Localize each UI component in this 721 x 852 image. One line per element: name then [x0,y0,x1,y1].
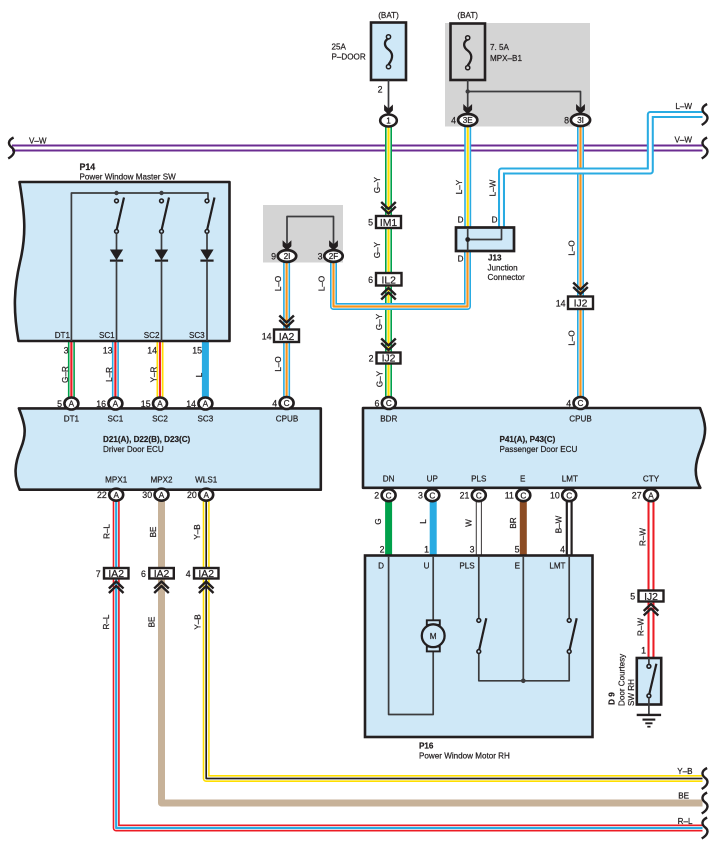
connector 4(C) CPUB passenger [566,397,587,409]
passenger ECU top labels [380,415,591,424]
connector IA2 MPX2 chevron [154,582,169,594]
svg-text:D: D [458,255,464,264]
switch SC1 [115,198,124,250]
connector 2I oval [278,250,296,262]
svg-text:4: 4 [560,545,565,555]
svg-text:D: D [458,216,464,225]
connector 5(A) DT1 [57,398,78,410]
svg-text:SW RH: SW RH [627,679,636,706]
svg-text:Y–B: Y–B [194,614,203,629]
svg-text:SC2: SC2 [144,331,160,340]
connector 15(A) SC2 [141,398,167,410]
svg-text:(BAT): (BAT) [378,11,399,20]
svg-text:2: 2 [374,491,379,501]
svg-text:SC3: SC3 [189,331,205,340]
svg-text:A: A [203,400,209,409]
svg-text:D21(A), D22(B), D23(C): D21(A), D22(B), D23(C) [103,435,191,444]
connector 27(A) CTY [632,489,658,501]
wire V-W horizontal bus [12,145,703,152]
svg-text:A: A [203,491,209,500]
svg-text:A: A [648,491,654,500]
svg-text:4: 4 [272,399,277,409]
switch LMT [567,618,576,653]
wire G DN to motor [385,501,392,556]
svg-text:L–O: L–O [568,330,577,345]
svg-text:W: W [465,519,474,527]
wire U branch to motor [432,556,434,621]
svg-text:A: A [157,400,163,409]
Passenger Door ECU box [363,408,705,488]
connector 4(C) CPUB driver [272,397,293,409]
svg-text:DT1: DT1 [64,415,80,424]
wire PLS/LMT switch commons [479,653,569,681]
driver ECU top labels [64,415,298,424]
svg-text:3: 3 [318,252,323,262]
svg-text:27: 27 [632,491,642,501]
wire DT1 internal vertical [71,193,208,341]
arrow into 2I [283,240,292,250]
svg-text:R–L: R–L [678,817,693,826]
svg-text:L: L [419,519,428,524]
wire L-O J13 to 2F [334,250,468,307]
svg-text:L–Y: L–Y [455,179,464,194]
svg-text:C: C [284,399,290,408]
svg-text:5: 5 [515,545,520,555]
svg-text:L: L [195,372,204,377]
svg-text:1: 1 [386,117,391,126]
svg-text:IA2: IA2 [108,569,124,580]
Driver Door ECU box [16,408,321,489]
P16 Power Window Motor RH box [365,556,593,738]
wire LMT branch [568,556,570,619]
svg-text:IJ2: IJ2 [644,592,658,603]
svg-text:P16: P16 [419,742,434,751]
svg-text:LMT: LMT [549,562,565,571]
svg-text:D 9: D 9 [608,692,617,705]
svg-text:1: 1 [424,545,429,555]
motor pin numbers [380,545,566,555]
svg-text:Y–B: Y–B [677,767,692,776]
svg-text:L–R: L–R [105,367,114,382]
svg-text:G–Y: G–Y [373,241,382,258]
connector 2(C) DN [374,489,395,501]
connector 21(C) PLS [460,489,486,501]
connector IJ2 left chevron [381,339,396,351]
svg-text:C: C [429,491,435,500]
connector 3E oval [458,114,477,126]
label 7.5A MPX-B1 [490,43,522,63]
driver ECU title [103,435,191,454]
svg-text:1: 1 [641,646,646,656]
wire B-W LMT to motor [566,501,573,556]
svg-text:P–DOOR: P–DOOR [332,53,366,62]
break symbol V-W right [702,138,708,159]
wire Y-R pin14 to 15A [157,341,164,398]
svg-text:MPX2: MPX2 [150,476,173,485]
svg-text:C: C [578,399,584,408]
svg-text:3: 3 [64,346,69,356]
connector 10(C) LMT [550,489,576,501]
svg-text:2: 2 [380,545,385,555]
arrow into 3E [463,104,472,114]
diode SC2 [155,250,168,342]
svg-text:A: A [113,400,119,409]
connector IJ2 right chevron [573,283,588,295]
passenger ECU title [500,435,578,454]
svg-text:Driver Door ECU: Driver Door ECU [103,445,164,454]
svg-text:6: 6 [141,569,146,579]
svg-text:SC1: SC1 [99,331,115,340]
connector IJ2 left [377,353,401,365]
svg-text:P14: P14 [80,162,96,172]
svg-text:IA2: IA2 [198,569,214,580]
switch SC2 [160,198,169,250]
switch PLS [477,618,486,653]
svg-text:14: 14 [262,331,272,341]
svg-text:9: 9 [271,252,276,262]
svg-text:V–W: V–W [674,136,692,145]
break Y-B [702,768,708,789]
label J13 Junction Connector [488,254,526,283]
gray block around 2I/2F connectors [263,205,343,263]
svg-text:L–O: L–O [318,276,327,291]
svg-text:SC1: SC1 [108,415,124,424]
svg-text:CPUB: CPUB [569,415,592,424]
svg-text:E: E [515,562,521,571]
svg-text:L–O: L–O [568,240,577,255]
svg-text:Connector: Connector [488,273,526,282]
motor box internal labels [378,562,565,571]
svg-text:25A: 25A [332,43,347,52]
connector 30(A) MPX2 [142,489,168,501]
svg-text:8: 8 [564,116,569,126]
switch SC3 [205,198,214,250]
svg-text:Power Window Motor RH: Power Window Motor RH [419,752,510,761]
wire R-L MPX1 run [116,501,702,829]
svg-text:30: 30 [142,490,152,500]
svg-text:2F: 2F [329,252,339,261]
wire fuse2 junction branch to 3E and 3I [466,80,581,111]
connector IM1 [376,216,401,229]
connector 3I oval [571,114,590,126]
svg-text:3I: 3I [577,116,584,125]
wire W PLS to motor [476,501,482,556]
connector 1 oval [380,115,397,127]
svg-text:DT1: DT1 [55,331,71,340]
svg-text:(BAT): (BAT) [457,11,478,20]
svg-text:MPX–B1: MPX–B1 [490,54,522,63]
svg-text:Y–B: Y–B [193,524,202,539]
svg-text:L–W: L–W [675,102,692,111]
connector IA2 mid chevron [279,316,294,328]
svg-text:3: 3 [470,545,475,555]
svg-text:5: 5 [630,592,635,602]
J13 junction connector [456,228,514,252]
svg-text:Y–R: Y–R [150,366,159,382]
break BE [702,793,708,814]
svg-text:16: 16 [96,399,106,409]
svg-text:13: 13 [103,346,113,356]
wire G-Y fuse1 to BDR [385,126,392,398]
svg-text:PLS: PLS [471,475,487,484]
svg-text:3E: 3E [463,116,474,125]
svg-text:21: 21 [460,491,470,501]
node SC1 tap [114,191,118,195]
svg-text:C: C [386,491,392,500]
svg-text:P41(A), P43(C): P41(A), P43(C) [500,435,556,444]
svg-text:G–Y: G–Y [375,313,384,330]
P16 label [419,742,510,761]
svg-text:5: 5 [57,399,62,409]
wire L-O 2I to CPUB(driver) [283,258,290,398]
diode SC1 [110,250,123,342]
bridge wire 2I-2F [287,217,334,248]
svg-text:11: 11 [505,491,514,501]
connector IM1 chevron [381,202,396,214]
svg-text:U: U [424,562,430,571]
svg-text:15: 15 [192,346,202,356]
wire L-O 3I to CPUB(passenger) [577,126,584,398]
svg-text:22: 22 [97,490,107,500]
connector IJ2 right [568,297,593,310]
svg-text:IM1: IM1 [380,218,398,229]
svg-text:L–O: L–O [274,356,283,371]
svg-text:UP: UP [427,475,438,484]
connector IJ2 CTY chevron [644,604,659,616]
wire E branch [522,556,524,681]
svg-text:D: D [492,216,498,225]
svg-text:IJ2: IJ2 [574,299,588,310]
ground [637,705,661,727]
svg-text:B–W: B–W [555,515,564,533]
svg-text:M: M [430,632,437,641]
svg-text:L–O: L–O [274,276,283,291]
svg-text:V–W: V–W [29,137,47,146]
connector 11(C) E [505,489,531,501]
svg-text:C: C [386,399,392,408]
svg-text:2: 2 [378,85,383,95]
connector IJ2 CTY [630,591,663,603]
wire D branch to motor [389,556,434,715]
svg-text:BE: BE [149,526,158,537]
passenger ECU bottom labels [383,475,660,484]
svg-text:BE: BE [678,792,689,801]
svg-text:C: C [520,491,526,500]
svg-text:2: 2 [369,353,374,363]
svg-text:D: D [378,562,384,571]
svg-text:L–W: L–W [489,179,498,196]
P14 pin numbers [64,346,203,356]
svg-text:DN: DN [383,475,395,484]
svg-text:C: C [566,491,572,500]
diode SC3 [200,250,213,342]
label P14 title [80,162,177,182]
svg-text:IL2: IL2 [381,275,396,286]
wire fuse1 to connector 1 [388,80,390,111]
motor M [422,620,445,651]
svg-text:G–R: G–R [61,366,70,383]
svg-text:20: 20 [187,490,197,500]
svg-text:R–W: R–W [637,618,646,636]
connector IL2 [376,273,402,286]
connector 22(A) MPX1 [97,489,123,501]
connector IA2 MPX2 [141,568,174,580]
label 25A P-DOOR [332,43,366,62]
svg-text:R–L: R–L [102,614,111,629]
wire PLS branch [478,556,480,619]
svg-text:G–Y: G–Y [373,176,382,193]
wire BE MPX2 run [162,501,703,804]
svg-text:J13: J13 [488,254,502,263]
connector IA2 WLS1 [186,568,219,580]
svg-text:10: 10 [550,491,560,501]
svg-text:IA2: IA2 [279,332,295,343]
gray block around 7.5A fuse [445,23,590,127]
svg-text:G: G [374,518,383,524]
wire Y-B WLS1 run [206,501,702,779]
connector 14(A) SC3 [186,398,212,410]
svg-text:BR: BR [509,517,518,528]
driver ECU bottom labels [105,476,218,485]
svg-text:4: 4 [451,116,456,126]
svg-text:E: E [520,475,526,484]
svg-text:SC2: SC2 [152,415,168,424]
svg-text:BE: BE [148,616,157,627]
D9 label rotated [608,653,637,706]
svg-text:14: 14 [147,346,157,356]
svg-text:Passenger Door ECU: Passenger Door ECU [500,445,578,454]
arrow into connector 1 [384,105,393,115]
svg-text:PLS: PLS [459,562,475,571]
svg-text:A: A [113,491,119,500]
svg-text:6: 6 [374,399,379,409]
connector 20(A) WLS1 [187,489,213,501]
connector IA2 MPX1 chevron [109,582,124,594]
svg-text:CTY: CTY [643,475,660,484]
svg-text:4: 4 [186,569,191,579]
connector IA2 mid [274,330,299,343]
arrow into 2F [329,240,338,250]
svg-text:6: 6 [368,275,373,285]
fuse 7.5A MPX-B1 [451,24,486,81]
break symbol L-W right [702,104,708,125]
svg-text:IA2: IA2 [154,569,170,580]
break symbol V-W left [8,138,14,159]
svg-text:3: 3 [418,491,423,501]
fuse 25A P-DOOR [371,23,406,81]
connector IA2 MPX1 [96,568,129,580]
connector 6(C) BDR [374,397,395,409]
svg-text:7: 7 [96,569,101,579]
svg-text:Door Courtesy: Door Courtesy [618,653,627,706]
svg-text:CPUB: CPUB [276,415,299,424]
node SC2 tap [159,191,163,195]
svg-text:7. 5A: 7. 5A [490,43,510,52]
svg-text:14: 14 [556,298,566,308]
svg-text:Power Window Master SW: Power Window Master SW [80,173,177,182]
svg-text:R–L: R–L [103,524,112,539]
wire BR E to motor [520,501,527,556]
svg-text:IJ2: IJ2 [382,354,396,365]
svg-text:MPX1: MPX1 [105,476,128,485]
P14 Power Window Master SW box [15,182,230,341]
wire R-W CTY to D9 [648,501,655,659]
svg-text:SC3: SC3 [198,415,214,424]
node E common junction [521,679,526,684]
svg-text:5: 5 [368,218,373,228]
connector IA2 WLS1 chevron [199,582,214,594]
break R-L [702,818,708,839]
svg-text:WLS1: WLS1 [195,476,218,485]
D9 Door Courtesy SW RH box [637,658,661,705]
connector 3(C) UP [418,489,439,501]
svg-text:C: C [476,491,482,500]
wire L-R pin13 to 16A [112,341,119,398]
wire L-Y 3E to J13 [464,126,471,229]
svg-text:BDR: BDR [380,415,397,424]
svg-text:Junction: Junction [488,264,518,273]
svg-text:LMT: LMT [562,475,578,484]
svg-text:A: A [159,491,165,500]
svg-text:R–W: R–W [639,528,648,546]
connector 16(A) SC1 [96,398,122,410]
wire L-W from right break to J13 [502,115,703,230]
svg-text:4: 4 [566,399,571,409]
connector 2F oval [324,250,342,262]
arrow into 3I [576,104,585,114]
wire L UP to motor [430,501,437,556]
svg-text:15: 15 [141,399,151,409]
connector IL2 chevron [381,288,396,300]
svg-text:A: A [69,400,75,409]
svg-text:G–Y: G–Y [375,370,384,387]
wire L pin15 to 14A [202,341,209,398]
wire G-R pin3 to 5A [68,341,75,398]
svg-text:2I: 2I [284,252,291,261]
svg-text:14: 14 [186,399,196,409]
P14 internal pin labels [55,331,205,340]
